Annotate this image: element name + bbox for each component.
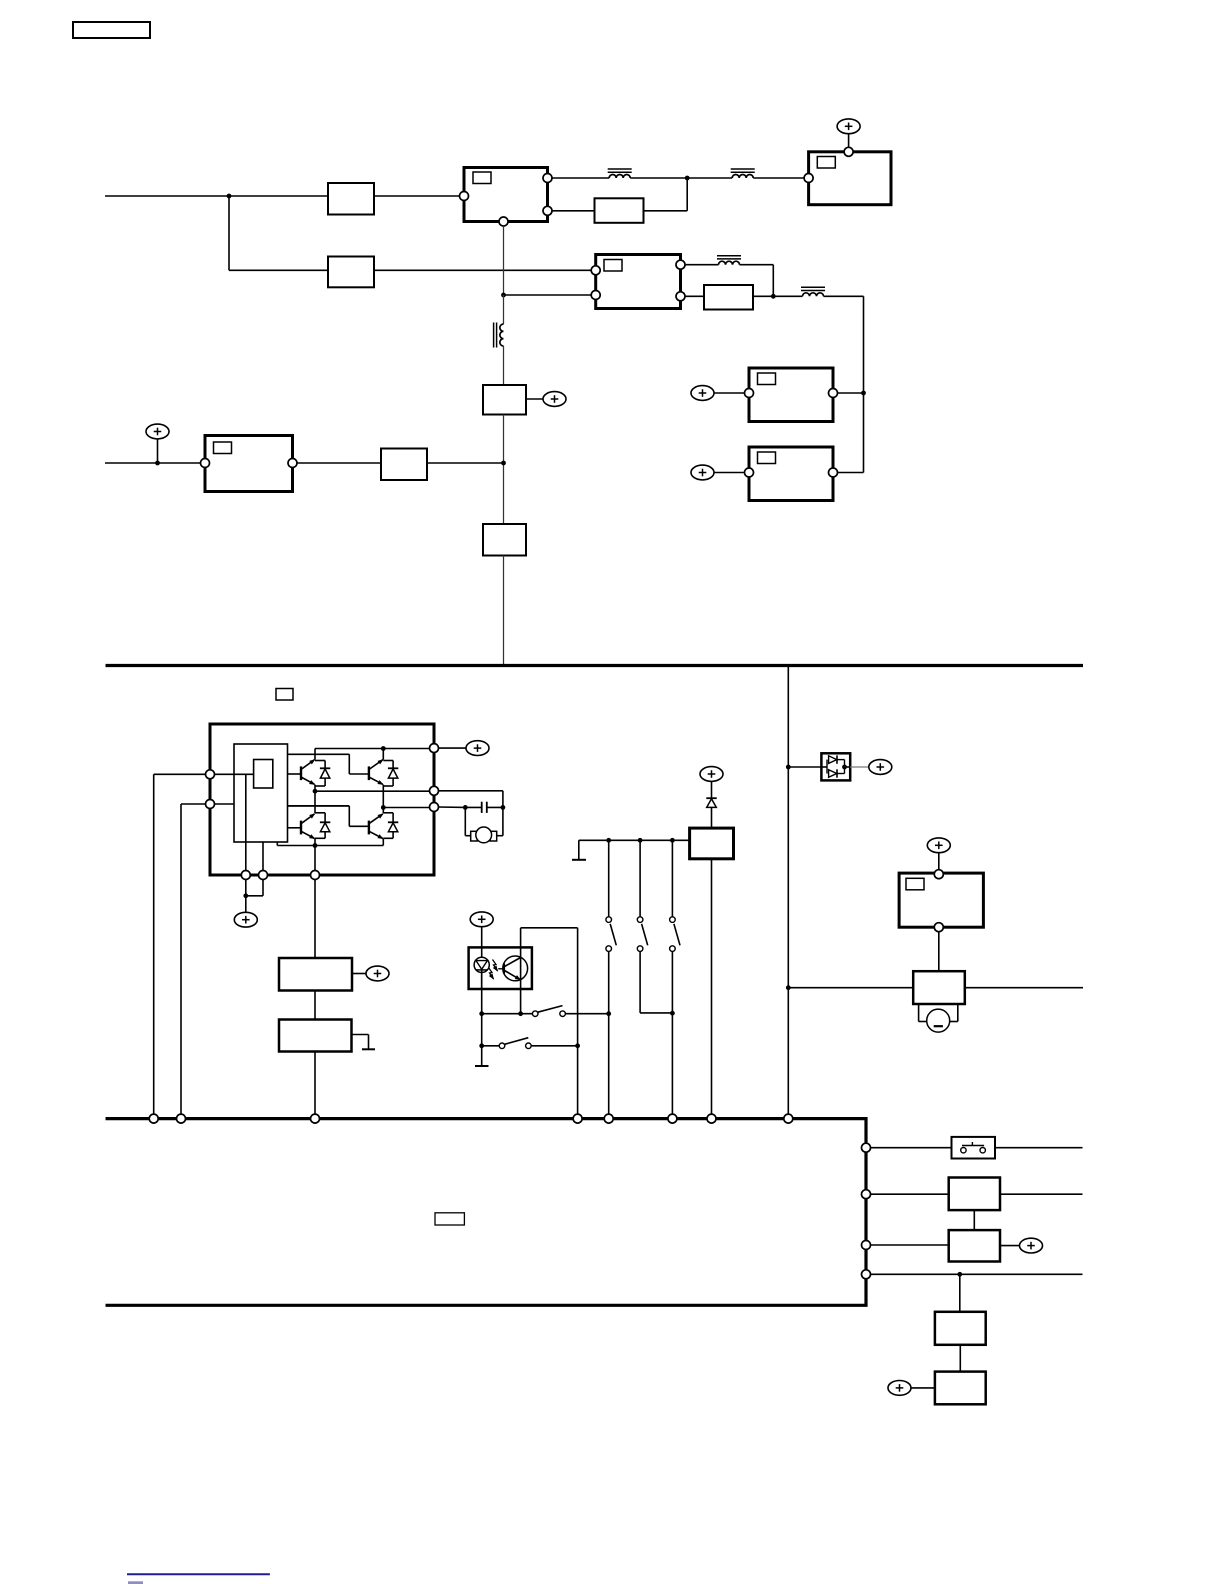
wire INV left-1 to left rail [154, 774, 206, 1114]
terminal REG-D left [745, 468, 754, 477]
transistor Q2 collector slant [369, 757, 385, 769]
wire Q3 emitter [314, 839, 316, 846]
opto emitter to row1 [518, 1011, 523, 1016]
motor minus symbol [927, 1009, 950, 1032]
connector + key block [700, 767, 723, 782]
wire ctrl base stub [288, 805, 350, 807]
terminal PSU4 right [288, 459, 297, 468]
wire L2 to PSU2 [753, 177, 804, 179]
label near inverter [276, 689, 293, 701]
terminal PSU1 bottom [499, 217, 508, 226]
junction emitter rail [313, 843, 318, 848]
wire row1 left [870, 1147, 951, 1149]
connector + at P [1020, 1238, 1043, 1253]
wire INV out top to + [438, 747, 466, 749]
wire I to + [352, 973, 366, 975]
transistor Q2 base bar [368, 766, 370, 780]
wire motor row right [965, 987, 1083, 989]
wire PSU3 to A4 [685, 295, 704, 297]
wire ctrl pin down 2 [262, 842, 264, 871]
connector + into C [691, 386, 714, 401]
connector + DC input [146, 424, 169, 439]
motor interface box [913, 971, 965, 1004]
switch SW-B row2 [482, 1038, 578, 1049]
wire + to MDRV [938, 853, 940, 871]
wire O to P [973, 1210, 975, 1230]
terminal INV right-3 [430, 803, 439, 812]
label inside PSU3 [604, 260, 622, 272]
transistor Q1 collector slant [301, 757, 317, 769]
wire row2 left [870, 1193, 949, 1195]
wire Q2 collector [382, 749, 384, 760]
wire G to + [526, 398, 543, 400]
connector + at block I [366, 966, 389, 981]
wire J to bus2 [314, 1052, 316, 1115]
wire + to opto [481, 927, 483, 948]
wire I to J [314, 991, 316, 1020]
key switch K3 [670, 840, 680, 1114]
block PSU1 (thick) [464, 168, 548, 222]
emitter rail [277, 845, 383, 847]
opto LED line [481, 947, 483, 989]
opto transistor base bar [503, 964, 505, 974]
ground at block J [352, 1035, 376, 1050]
block filter A2 [328, 257, 374, 288]
diode pair internals [821, 755, 850, 777]
junction key3 row [670, 1011, 675, 1016]
diode D-Q4 [383, 813, 398, 839]
wire row1 right [995, 1147, 1083, 1149]
wire row4 [870, 1273, 1082, 1275]
junction motor row [786, 985, 791, 990]
inductor L3 [717, 256, 741, 265]
wire collector node to bus2 [577, 1046, 579, 1115]
diode D-Q2 [383, 761, 398, 787]
key switch K2 [637, 840, 672, 1013]
wire LED cathode down [481, 989, 483, 1066]
wire node to L2 [687, 177, 732, 179]
junction node feed [501, 293, 506, 298]
block F [381, 449, 427, 481]
bus2 right terminal row1 [862, 1143, 871, 1152]
footer text remnant [128, 1581, 143, 1584]
optocoupler box [469, 947, 532, 989]
title box (empty) [73, 22, 150, 38]
opto phototransistor [503, 956, 528, 981]
wire + to diode [711, 781, 713, 798]
inverter module box (thick) [210, 724, 434, 875]
junction node B [381, 805, 386, 810]
wire H to bus [503, 556, 505, 665]
light arrow 1 [493, 960, 500, 973]
terminal REG-C left [745, 389, 754, 398]
vibration motor VM1 [471, 827, 497, 843]
wire ctrl to Q2 base staircase [288, 754, 370, 774]
bus2 terminal opto-col [573, 1114, 582, 1123]
controller rect inside INV [234, 744, 288, 842]
bus line 2 (digital board) [106, 1119, 867, 1306]
terminal INV left-1 [206, 770, 215, 779]
wire PSU4 to F [297, 462, 381, 464]
wire + to R [911, 1387, 935, 1389]
key switch K1 [606, 840, 616, 1114]
junction row2 collector [575, 1043, 580, 1048]
pushbutton box [952, 1137, 996, 1159]
wire INV out A [438, 791, 503, 808]
bus2 right terminal row4 [862, 1270, 871, 1279]
junction key2 top [638, 838, 643, 843]
wire Q1 emitter [314, 785, 316, 792]
collector rail top [315, 748, 430, 750]
block J [279, 1020, 352, 1052]
wire PSU1 to L1 [552, 177, 610, 179]
block I (current sense) [279, 958, 352, 991]
junction node at C [861, 391, 866, 396]
wire P to + [1000, 1245, 1020, 1247]
wire to diode pair [788, 766, 821, 768]
inductor L4 [801, 287, 825, 296]
block REG-C (thick) [749, 368, 833, 422]
wire A3 up to node [644, 178, 688, 211]
bus2 terminal main-v [784, 1114, 793, 1123]
transistor Q3 collector slant [301, 812, 317, 824]
opto LED cathode to rows [479, 1011, 484, 1016]
wire L3 to corner [740, 265, 774, 297]
bus2 terminal key-1 [604, 1114, 613, 1123]
wire bottom pin 3 down [314, 879, 316, 958]
wire A1 to PSU1 [374, 195, 460, 197]
bus2 terminal key-ctrl [707, 1114, 716, 1123]
wire row4 to Q [959, 1274, 961, 1312]
junction LED row2 [479, 1043, 484, 1048]
inductor L2 [731, 169, 755, 178]
connector + motor supply [927, 838, 950, 853]
wire PSU1 bottom vertical [503, 226, 505, 295]
wire node to L4 [773, 295, 802, 297]
terminal INV bottom-1 [241, 871, 250, 880]
block MDRV (thick) [899, 873, 983, 927]
wire F to feed node [427, 462, 504, 464]
output node B line [383, 807, 430, 809]
junction right v diode pair [786, 765, 791, 770]
transistor Q4 emitter slant [369, 831, 385, 841]
ground bar opto [475, 1065, 489, 1067]
wire emitter rail to ctrl [276, 842, 278, 846]
wire L5 to G [503, 346, 505, 385]
diode D5 [706, 798, 716, 828]
footer link line [127, 1573, 270, 1575]
terminal INV right-1 [430, 744, 439, 753]
terminal PSU3 left-bottom [591, 291, 600, 300]
junction row1 key1 [606, 1011, 611, 1016]
transistor Q4 base bar [368, 821, 370, 835]
junction node A [313, 789, 318, 794]
junction bottom pins [243, 893, 248, 898]
wire Q to R [959, 1345, 961, 1372]
label inside REG-C [758, 373, 776, 385]
capacitor C1 [482, 802, 487, 813]
junction node after A4 [771, 294, 776, 299]
junction node DC input [155, 461, 160, 466]
terminal PSU3 right-top [676, 260, 685, 269]
terminal INV bottom-3 [311, 871, 320, 880]
wire Q3 collector [314, 791, 316, 813]
diode pair box [821, 753, 850, 780]
wire to cap left plate [465, 806, 481, 808]
label inside REG-D [758, 452, 776, 464]
transistor Q2 emitter slant [369, 777, 385, 787]
wire Q4 emitter [382, 839, 384, 846]
terminal MDRV bottom circle [934, 923, 943, 932]
inductor L1 [608, 169, 632, 178]
block filter A1 [328, 183, 374, 215]
wire KEY-CTRL to bus2 [711, 859, 713, 1115]
light arrow 2 [489, 968, 496, 981]
wire A4 to node [753, 295, 773, 297]
wire feed to L5 [503, 295, 505, 324]
wire + to D [714, 472, 745, 474]
bus2 terminal inv-gate-1 [149, 1114, 158, 1123]
bus line 1 (power rail) [106, 664, 1084, 667]
block H [483, 524, 526, 556]
wire Q4 collector [382, 808, 384, 814]
wire + to input [157, 439, 159, 463]
wire diode pair to + [850, 766, 869, 768]
junction cap left [463, 805, 468, 810]
terminal PSU3 left-top [591, 266, 600, 275]
wire node to PSU3 [504, 294, 592, 296]
wire A2 to PSU3 [374, 269, 592, 271]
wire Q1 collector [314, 749, 316, 760]
terminal PSU1 right-bottom [543, 206, 552, 215]
terminal REG-D right [829, 468, 838, 477]
wire bottom pin 2 jog [246, 879, 263, 896]
terminal REG-C right [829, 389, 838, 398]
wire PSU3 to L3 [685, 264, 719, 266]
wire D to rail [837, 472, 863, 474]
terminal INV bottom-2 [259, 871, 268, 880]
wire INV left-2 to left rail [181, 804, 206, 1114]
opto collector jog [521, 928, 578, 1046]
bus2 terminal key-3 [668, 1114, 677, 1123]
wire Q3 base [288, 827, 301, 829]
wire PSU2 top to + [848, 134, 850, 148]
wire DC input [105, 462, 201, 464]
motor bracket [919, 1004, 958, 1022]
main right vertical [787, 667, 789, 1114]
junction node after L1 [685, 176, 690, 181]
block PSU4 (thick) [205, 436, 293, 492]
inner rect of controller [254, 760, 273, 789]
label inside PSU4 [214, 442, 232, 454]
wire ctrl to Q4 base staircase [288, 806, 370, 826]
opto collector slant [505, 958, 521, 967]
terminal PSU2 top [844, 147, 853, 156]
junction key1 top [606, 838, 611, 843]
diode D-Q1 [315, 761, 330, 787]
wire cap to right node [487, 806, 503, 808]
block PSU2 (thick) [809, 152, 891, 205]
transistor Q3 emitter slant [301, 831, 316, 841]
terminal MDRV top circle [934, 870, 943, 879]
output node A line [315, 790, 430, 792]
connector + opto [470, 912, 493, 927]
junction node AC split [227, 194, 232, 199]
junction cap right [501, 805, 506, 810]
inductor L5 (vertical) [494, 323, 504, 348]
opto LED [474, 957, 489, 989]
wire ctrl input 2 [214, 803, 234, 805]
bus2 terminal inv-fb [311, 1114, 320, 1123]
wire Q2 emitter [382, 785, 384, 808]
wire + to C [714, 392, 745, 394]
junction node mid feed [501, 461, 506, 466]
connector + at R [888, 1381, 911, 1396]
wire row2 right [1000, 1193, 1083, 1195]
wire C to rail [837, 392, 863, 394]
wire G down [503, 415, 505, 525]
transistor Q1 emitter slant [301, 777, 316, 787]
wire emitter rail to bottom pin [314, 846, 316, 871]
junction key3 top [670, 838, 675, 843]
wire motor row left [788, 987, 913, 989]
switch SW-A row1 [482, 1006, 609, 1017]
block KEY-CTRL (thick) [690, 828, 734, 859]
wire PSU1 to A3 [552, 210, 595, 212]
opto emitter slant [505, 971, 523, 982]
wire MDRV to motor box [938, 931, 940, 971]
junction row4 [957, 1272, 962, 1277]
ground keys [572, 840, 586, 860]
block regulator A3 [595, 198, 644, 223]
terminal PSU1 right-top [543, 174, 552, 183]
connector + inverter ground [234, 912, 257, 927]
label inside PSU1 [473, 172, 491, 184]
connector + INV supply [466, 741, 489, 756]
keys common line [579, 839, 690, 841]
bus2 right terminal row3 [862, 1241, 871, 1250]
block PSU3 (thick) [596, 255, 681, 309]
label on digital board [435, 1213, 464, 1225]
pushbutton contacts [961, 1142, 986, 1153]
wire ctrl pin down 1 [245, 774, 247, 871]
connector + at G [543, 392, 566, 407]
transistor Q4 collector slant [369, 812, 385, 824]
terminal INV right-2 [430, 786, 439, 795]
wire Q1 base [288, 773, 301, 775]
wire AC input top [105, 195, 328, 197]
transistor Q1 base bar [300, 766, 302, 780]
junction rail/Q2 collector [381, 746, 386, 751]
label inside MDRV [906, 878, 924, 890]
wire L4 down rail [824, 296, 864, 472]
block R [935, 1372, 986, 1405]
wire AC split down [229, 196, 328, 270]
wire motor left [465, 807, 471, 835]
wire L1 to node [630, 177, 687, 179]
connector + output PSU2 [837, 119, 860, 134]
terminal PSU2 left [804, 174, 813, 183]
opto base stub [498, 968, 504, 970]
wire bottom pin 1 down [245, 879, 247, 912]
connector + into D [691, 465, 714, 480]
bus2 right terminal row2 [862, 1190, 871, 1199]
label inside PSU2 [817, 157, 835, 169]
block P [949, 1230, 1000, 1261]
terminal INV left-2 [206, 800, 215, 809]
wire INV out B [438, 806, 465, 808]
transistor Q3 base bar [300, 821, 302, 835]
terminal PSU4 left [201, 459, 210, 468]
terminal PSU1 left [460, 192, 469, 201]
block G [483, 385, 526, 415]
block REG-D (thick) [749, 447, 833, 501]
block regulator A4 [704, 285, 753, 310]
terminal PSU3 right-bottom [676, 292, 685, 301]
wire row3 [870, 1244, 949, 1246]
wire ctrl input 1 [214, 773, 253, 775]
block Q [935, 1312, 986, 1345]
block O [949, 1178, 1000, 1211]
bus2 terminal inv-gate-2 [177, 1114, 186, 1123]
diode D-Q3 [315, 813, 330, 839]
opto transistor collector line [520, 928, 522, 1014]
wire motor right [497, 807, 503, 835]
connector + diode pair [869, 760, 892, 775]
